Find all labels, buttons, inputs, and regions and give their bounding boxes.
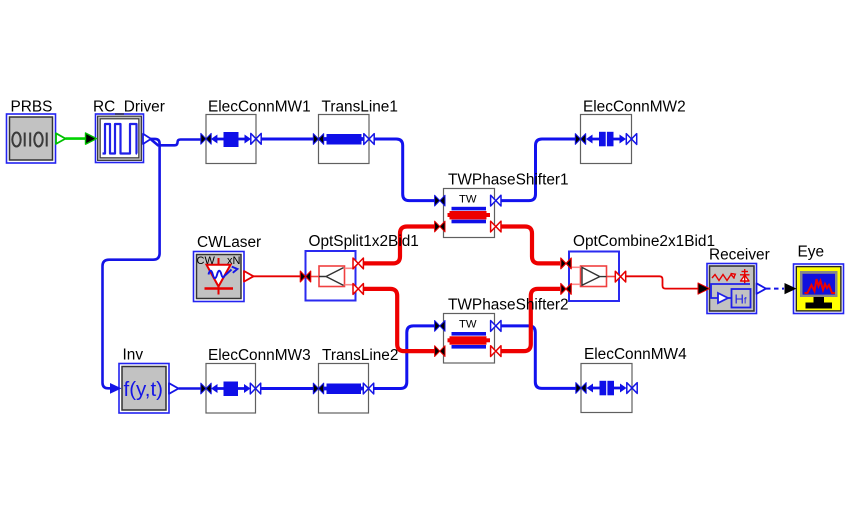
wire blue TransLine1 to TWPhaseShifter1: [375, 139, 437, 201]
wire red thin OptCombine out to Receiver: [626, 276, 699, 288]
port MW3 right (open blue bowtie): [250, 383, 260, 394]
wire blue dashed Receiver to Eye: [766, 288, 784, 290]
svg-text:TWPhaseShifter2: TWPhaseShifter2: [448, 297, 569, 314]
TransLine2 block: [313, 364, 373, 414]
TWPhaseShifter2 block: [435, 314, 501, 364]
port TWPS2 top-right (open blue bowtie): [491, 321, 501, 332]
port TWPS1 top-right (open blue bowtie): [491, 195, 501, 206]
port Receiver input (black arrow): [698, 283, 710, 294]
wire blue Inv to ElecConnMW3: [179, 387, 205, 390]
port TWPS1 top-left (black bowtie): [435, 195, 445, 206]
port TWPS2 bottom-left (black bowtie): [435, 346, 445, 357]
Eye block: [785, 264, 844, 314]
Inv block: [110, 364, 179, 414]
svg-text:Inv: Inv: [123, 347, 144, 364]
port Inv output (open blue triangle): [169, 383, 179, 394]
ElecConnMW4 block: [576, 364, 637, 413]
port MW3 left (black bowtie): [201, 383, 211, 394]
svg-text:ElecConnMW4: ElecConnMW4: [584, 346, 687, 363]
svg-text:TransLine1: TransLine1: [322, 99, 398, 116]
wire red thin CWLaser to OptSplit1x2Bid1: [253, 275, 301, 277]
CWLaser block: [194, 252, 254, 302]
ElecConnMW3 block: [201, 364, 261, 414]
wire blue ElecConnMW1 to TransLine1: [262, 138, 318, 141]
TransLine1 block: [313, 115, 374, 164]
svg-text:CWLaser: CWLaser: [197, 234, 261, 251]
svg-text:f(y,t): f(y,t): [124, 378, 163, 401]
port PRBS output (open green triangle): [56, 133, 66, 144]
wire blue ElecConnMW3 to TransLine2: [261, 387, 317, 390]
wire blue TWPhaseShifter1 to ElecConnMW2: [501, 139, 577, 201]
port RC_Driver output (open blue triangle): [143, 134, 151, 144]
wire blue RC_Driver fork down to Inv: [103, 139, 160, 388]
blue squiggle arrow: [209, 270, 232, 279]
port MW4 left (black bowtie): [576, 383, 586, 394]
TWPhaseShifter1 block: [435, 189, 501, 238]
port MW2 right (open blue bowtie, unconnected): [626, 134, 636, 145]
port Eye input (black arrow): [785, 283, 797, 294]
port MW1 right (open blue bowtie): [251, 133, 261, 144]
svg-text:RC_Driver: RC_Driver: [93, 99, 165, 116]
port TL1 right (open blue bowtie): [364, 134, 374, 145]
wire blue TWPhaseShifter2 to ElecConnMW4: [501, 326, 578, 389]
ElecConnMW2 block: [575, 115, 636, 164]
wire red OptSplit bottom out to TWPhaseShifter2 bottom-left: [364, 289, 436, 351]
OptSplit1x2Bid1 block: [300, 251, 363, 301]
ElecConnMW1 block: [201, 115, 261, 164]
Receiver block: [698, 264, 766, 314]
port TWPS2 bottom-right (open red bowtie): [491, 346, 501, 357]
port OptSplit left (black bowtie): [300, 271, 310, 282]
inner blue square with arrows: [216, 138, 246, 141]
port OptCombine output (open red bowtie): [615, 271, 625, 282]
svg-text:ElecConnMW3: ElecConnMW3: [208, 347, 311, 364]
port MW1 left (black bowtie): [201, 133, 211, 144]
RC_Driver block: [86, 114, 152, 163]
port Receiver output (open blue triangle): [757, 283, 767, 294]
svg-text:TW: TW: [459, 319, 477, 331]
svg-text:OptSplit1x2Bid1: OptSplit1x2Bid1: [309, 233, 419, 250]
red photodiode: [741, 275, 750, 281]
OptCombine2x1Bid1 block: [561, 252, 626, 302]
port OptCombine bottom-left (black bowtie): [561, 284, 571, 295]
port Inv input (blue filled arrow): [110, 383, 122, 394]
wire red TWPhaseShifter2 bottom-right to OptCombine bottom-left: [501, 289, 560, 351]
port TL2 right (open blue bowtie): [363, 383, 373, 394]
svg-text:Eye: Eye: [798, 244, 825, 261]
port TWPS2 top-left (black bowtie): [435, 321, 445, 332]
svg-text:TWPhaseShifter1: TWPhaseShifter1: [448, 172, 569, 189]
wire green PRBS to RC_Driver: [66, 137, 88, 140]
port MW4 right (open blue bowtie, unconnected): [627, 383, 637, 394]
port TWPS1 bottom-right (open red bowtie): [491, 221, 501, 232]
svg-text:PRBS: PRBS: [11, 99, 53, 116]
port OptSplit bottom-right (open red bowtie): [353, 284, 363, 295]
port TL1 left (black bowtie): [313, 134, 323, 145]
port TL2 left (black bowtie): [313, 383, 323, 394]
port TWPS1 bottom-left (black bowtie): [435, 221, 445, 232]
port MW2 left (black bowtie): [575, 134, 585, 145]
PRBS block: [7, 114, 66, 163]
wire blue RC_Driver to ElecConnMW1: [150, 139, 203, 145]
svg-text:ElecConnMW1: ElecConnMW1: [208, 99, 311, 116]
port OptSplit top-right (open red bowtie): [353, 258, 363, 269]
red zigzag with arrow: [712, 275, 735, 281]
svg-text:TransLine2: TransLine2: [322, 347, 398, 364]
port RC_Driver input (black arrow, green outline): [86, 133, 97, 144]
PRBS glyphs 0 1 1 0 1: [12, 133, 46, 147]
wire red OptSplit top out to TWPhaseShifter1 bottom-left: [364, 227, 436, 264]
svg-text:OptCombine2x1Bid1: OptCombine2x1Bid1: [573, 233, 715, 250]
port CWLaser output (open red triangle): [244, 271, 254, 282]
port OptCombine top-left (black bowtie): [561, 258, 571, 269]
svg-text:TW: TW: [459, 194, 477, 206]
wire blue TransLine2 to TWPhaseShifter2: [374, 326, 436, 389]
svg-text:ElecConnMW2: ElecConnMW2: [583, 99, 686, 116]
waveform: [103, 124, 138, 154]
blue amp chain: [711, 284, 751, 308]
svg-text:Receiver: Receiver: [709, 247, 770, 264]
wire red TWPhaseShifter1 bottom-right to OptCombine top-left: [501, 227, 560, 264]
laser diode symbol: [205, 258, 234, 295]
